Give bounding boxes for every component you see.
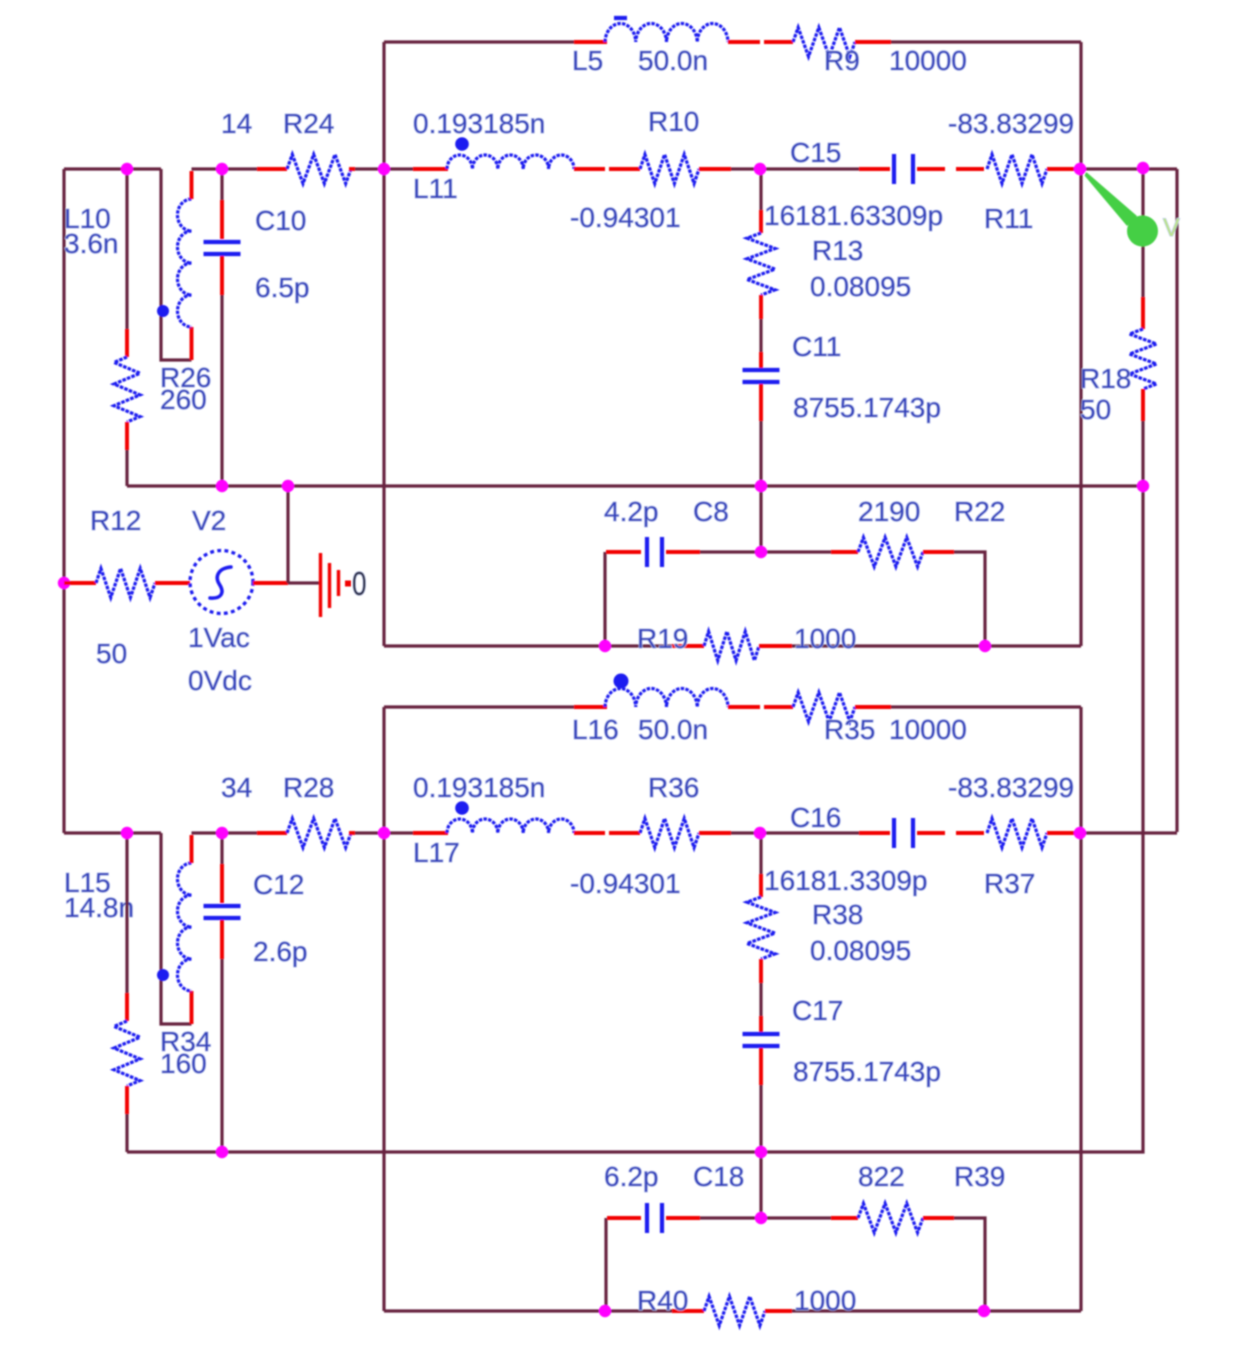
wire <box>1080 167 1177 170</box>
svg-text:50: 50 <box>96 638 127 669</box>
wire <box>666 550 700 554</box>
wire <box>759 210 763 233</box>
svg-text:R40: R40 <box>637 1285 688 1316</box>
wire <box>574 831 605 835</box>
svg-text:16181.3309p: 16181.3309p <box>764 865 928 896</box>
wire <box>759 384 763 421</box>
wire <box>125 833 128 993</box>
wire <box>891 40 1081 43</box>
inductor L5 <box>605 23 728 42</box>
resistor R19 <box>704 632 759 661</box>
resistor R35 <box>793 693 855 722</box>
wire <box>125 1086 129 1114</box>
wire <box>759 352 763 368</box>
wire <box>764 705 793 709</box>
svg-text:10000: 10000 <box>889 714 967 745</box>
wire <box>759 1085 762 1152</box>
wire <box>288 581 319 584</box>
svg-text:R9: R9 <box>824 45 860 76</box>
svg-text:0.08095: 0.08095 <box>810 271 911 302</box>
svg-text:34: 34 <box>221 772 252 803</box>
source V2 sine <box>210 567 231 598</box>
wire <box>954 1218 985 1311</box>
svg-text:16181.63309p: 16181.63309p <box>764 200 943 231</box>
wire <box>125 329 129 357</box>
svg-text:R39: R39 <box>954 1161 1005 1192</box>
junction <box>754 827 766 839</box>
wire <box>604 1218 607 1311</box>
wire <box>1047 167 1080 171</box>
inductor L10 <box>178 199 192 327</box>
wire <box>574 705 607 709</box>
wire <box>1080 831 1177 834</box>
junction <box>755 1212 767 1224</box>
wire <box>759 1048 763 1085</box>
wire <box>125 1114 128 1152</box>
junction <box>282 480 294 492</box>
wire <box>923 550 954 554</box>
wire <box>220 295 223 486</box>
wire <box>759 644 792 648</box>
wire <box>731 167 760 170</box>
resistor R28 <box>287 819 351 848</box>
wire <box>917 167 945 171</box>
svg-text:C15: C15 <box>790 137 841 168</box>
capacitor C17 <box>743 1032 780 1036</box>
junction <box>121 163 133 175</box>
capacitor C8 <box>645 537 649 567</box>
svg-text:C10: C10 <box>255 205 306 236</box>
svg-text:R22: R22 <box>954 496 1005 527</box>
wire <box>384 40 574 43</box>
resistor R34 <box>114 1021 140 1086</box>
svg-text:-83.83299: -83.83299 <box>948 772 1074 803</box>
svg-text:V2: V2 <box>192 505 226 536</box>
wire <box>355 167 413 170</box>
wire <box>384 705 574 708</box>
wire <box>64 831 161 834</box>
wire <box>699 167 731 171</box>
wire <box>1141 297 1145 329</box>
ground <box>319 553 322 617</box>
wire <box>759 1152 762 1218</box>
junction <box>378 827 390 839</box>
inductor L11 <box>447 155 574 169</box>
wire <box>127 421 1143 1152</box>
wire <box>1175 169 1178 832</box>
svg-text:R38: R38 <box>812 899 863 930</box>
junction <box>216 163 228 175</box>
node L15 dot <box>157 969 169 981</box>
wire <box>672 1309 704 1313</box>
svg-text:8755.1743p: 8755.1743p <box>793 1056 941 1087</box>
wire <box>382 42 385 646</box>
wire <box>672 644 704 648</box>
wire <box>699 831 731 835</box>
junction <box>216 1146 228 1158</box>
svg-text:R24: R24 <box>283 108 334 139</box>
wire <box>220 256 224 295</box>
inductor L16 <box>605 688 728 707</box>
wire <box>607 1216 641 1220</box>
wire <box>349 167 355 171</box>
svg-text:C12: C12 <box>253 869 304 900</box>
resistor R10 <box>640 155 699 184</box>
svg-text:C16: C16 <box>790 802 841 833</box>
capacitor C11 <box>743 368 780 372</box>
resistor R39 <box>858 1204 923 1233</box>
wire <box>161 833 192 1024</box>
wire <box>759 319 762 352</box>
wire <box>792 1309 1081 1312</box>
resistor R13 <box>747 233 775 295</box>
inductor L15 <box>178 863 192 991</box>
wire <box>606 550 641 554</box>
svg-text:8755.1743p: 8755.1743p <box>793 392 941 423</box>
junction <box>378 163 390 175</box>
wire <box>355 831 413 834</box>
wire <box>759 983 762 1016</box>
svg-text:1000: 1000 <box>794 623 856 654</box>
svg-text:R35: R35 <box>824 714 875 745</box>
wire <box>190 327 194 360</box>
wire <box>759 486 762 552</box>
node L5 dot <box>614 16 627 20</box>
wire <box>728 705 760 709</box>
junction <box>754 163 766 175</box>
wire <box>923 1216 954 1220</box>
wire <box>382 707 385 1311</box>
junction <box>1074 163 1086 175</box>
wire <box>759 421 762 486</box>
wire <box>956 167 984 171</box>
wire <box>1047 831 1080 835</box>
svg-text:6.2p: 6.2p <box>604 1161 659 1192</box>
wire <box>728 40 760 44</box>
svg-text:160: 160 <box>160 1048 207 1079</box>
wire <box>859 831 890 835</box>
wire <box>220 169 223 200</box>
wire <box>666 1216 700 1220</box>
wire <box>257 167 287 171</box>
svg-text:R12: R12 <box>90 505 141 536</box>
wire <box>954 552 985 646</box>
svg-text:10000: 10000 <box>889 45 967 76</box>
svg-text:0: 0 <box>352 565 367 602</box>
junction <box>1137 162 1149 174</box>
wire <box>125 169 128 329</box>
node L16 dot <box>614 674 629 689</box>
wire <box>917 831 945 835</box>
wire <box>190 835 194 863</box>
wire <box>764 40 793 44</box>
wire <box>220 200 224 239</box>
wire <box>220 864 224 903</box>
resistor R37 <box>987 819 1047 848</box>
resistor R18 <box>1130 329 1157 389</box>
wire <box>574 40 607 44</box>
svg-text:C18: C18 <box>693 1161 744 1192</box>
svg-text:L5: L5 <box>572 45 603 76</box>
wire <box>64 581 96 585</box>
wire <box>220 833 223 864</box>
source V2 <box>190 551 253 614</box>
svg-text:R28: R28 <box>283 772 334 803</box>
wire <box>155 581 190 585</box>
wire <box>1141 169 1144 297</box>
junction <box>216 480 228 492</box>
wire <box>125 993 129 1021</box>
wire <box>759 169 762 210</box>
svg-text:50.0n: 50.0n <box>638 714 708 745</box>
wire <box>384 1309 672 1312</box>
wire <box>700 1216 831 1219</box>
svg-text:L11: L11 <box>413 173 458 204</box>
svg-text:0Vdc: 0Vdc <box>188 665 252 696</box>
svg-text:0.193185n: 0.193185n <box>413 108 545 139</box>
svg-text:-0.94301: -0.94301 <box>570 868 681 899</box>
wire <box>192 167 258 170</box>
wire <box>603 552 606 646</box>
svg-text:C8: C8 <box>693 496 729 527</box>
resistor R22 <box>858 538 923 567</box>
wire <box>574 167 605 171</box>
svg-text:260: 260 <box>160 384 207 415</box>
junction <box>599 1305 611 1317</box>
wire <box>855 40 891 44</box>
svg-text:C11: C11 <box>792 331 841 362</box>
wire <box>731 831 760 834</box>
svg-text:L16: L16 <box>572 714 619 745</box>
svg-text:R10: R10 <box>648 106 699 137</box>
wire <box>760 831 859 834</box>
wire <box>609 831 640 835</box>
svg-text:2190: 2190 <box>858 496 920 527</box>
resistor R40 <box>704 1297 765 1326</box>
svg-text:-0.94301: -0.94301 <box>570 202 681 233</box>
wire <box>1141 389 1145 421</box>
wire <box>413 167 448 171</box>
probe marker <box>1085 172 1138 226</box>
wire <box>413 831 448 835</box>
capacitor C10 <box>204 240 241 244</box>
wire <box>64 167 161 170</box>
capacitor C18 <box>645 1203 649 1233</box>
resistor R12 <box>96 569 155 598</box>
wire <box>891 705 1081 708</box>
resistor R38 <box>747 897 775 959</box>
wire <box>1079 707 1082 1311</box>
wire <box>125 422 129 450</box>
svg-text:R11: R11 <box>984 203 1033 234</box>
node dot <box>58 577 70 589</box>
wire <box>161 169 192 360</box>
svg-text:3.6n: 3.6n <box>64 228 119 259</box>
wire <box>792 644 1081 647</box>
wire <box>759 833 762 874</box>
svg-text:R18: R18 <box>1080 363 1131 394</box>
resistor R9 <box>793 28 855 57</box>
svg-text:-83.83299: -83.83299 <box>948 108 1074 139</box>
resistor R24 <box>287 155 351 184</box>
svg-text:R19: R19 <box>637 623 688 654</box>
wire <box>125 450 128 486</box>
wire <box>190 991 194 1024</box>
capacitor C12 <box>204 904 241 908</box>
svg-text:6.5p: 6.5p <box>255 272 310 303</box>
svg-text:0.193185n: 0.193185n <box>413 772 545 803</box>
junction <box>1137 480 1149 492</box>
junction <box>599 640 611 652</box>
wire <box>831 1216 858 1220</box>
svg-text:R36: R36 <box>648 772 699 803</box>
node L10 dot <box>157 305 169 317</box>
junction <box>216 827 228 839</box>
svg-text:L17: L17 <box>413 837 460 868</box>
wire <box>956 831 984 835</box>
wire <box>859 167 890 171</box>
wire <box>759 1016 763 1032</box>
wire <box>831 550 858 554</box>
wire <box>760 167 859 170</box>
wire <box>220 959 223 1152</box>
svg-text:14.8n: 14.8n <box>64 892 134 923</box>
svg-text:R13: R13 <box>812 235 863 266</box>
wire <box>220 920 224 959</box>
wire <box>253 581 288 585</box>
wire <box>349 831 355 835</box>
svg-text:1000: 1000 <box>794 1285 856 1316</box>
junction <box>979 640 991 652</box>
svg-text:0.08095: 0.08095 <box>810 935 911 966</box>
inductor L17 <box>447 819 574 833</box>
resistor R36 <box>640 819 699 848</box>
junction <box>755 1146 767 1158</box>
svg-text:1Vac: 1Vac <box>188 622 250 653</box>
wire <box>1079 42 1082 646</box>
wire <box>190 171 194 199</box>
resistor R26 <box>114 357 140 422</box>
wire <box>609 167 640 171</box>
svg-text:14: 14 <box>221 108 252 139</box>
wire <box>700 550 831 553</box>
wire <box>127 484 1143 487</box>
junction <box>755 480 767 492</box>
junction <box>1074 827 1086 839</box>
svg-text:822: 822 <box>858 1161 905 1192</box>
junction <box>121 827 133 839</box>
node L11 dot <box>455 137 469 151</box>
svg-text:2.6p: 2.6p <box>253 936 308 967</box>
svg-text:C17: C17 <box>792 995 843 1026</box>
svg-text:50: 50 <box>1080 394 1111 425</box>
junction <box>978 1305 990 1317</box>
svg-text:R37: R37 <box>984 868 1035 899</box>
junction <box>755 546 767 558</box>
svg-text:50.0n: 50.0n <box>638 45 708 76</box>
resistor R11 <box>987 155 1047 184</box>
svg-text:V: V <box>1163 214 1180 242</box>
wire <box>192 831 258 834</box>
wire <box>759 295 763 319</box>
wire <box>384 644 672 647</box>
wire <box>855 705 891 709</box>
wire <box>765 1309 792 1313</box>
capacitor C15 <box>892 154 896 184</box>
wire <box>759 874 763 897</box>
wire <box>286 486 289 583</box>
wire <box>257 831 287 835</box>
node L17 dot <box>455 801 469 815</box>
wire <box>62 169 65 833</box>
svg-text:4.2p: 4.2p <box>604 496 659 527</box>
capacitor C16 <box>892 818 896 848</box>
wire <box>759 959 763 983</box>
